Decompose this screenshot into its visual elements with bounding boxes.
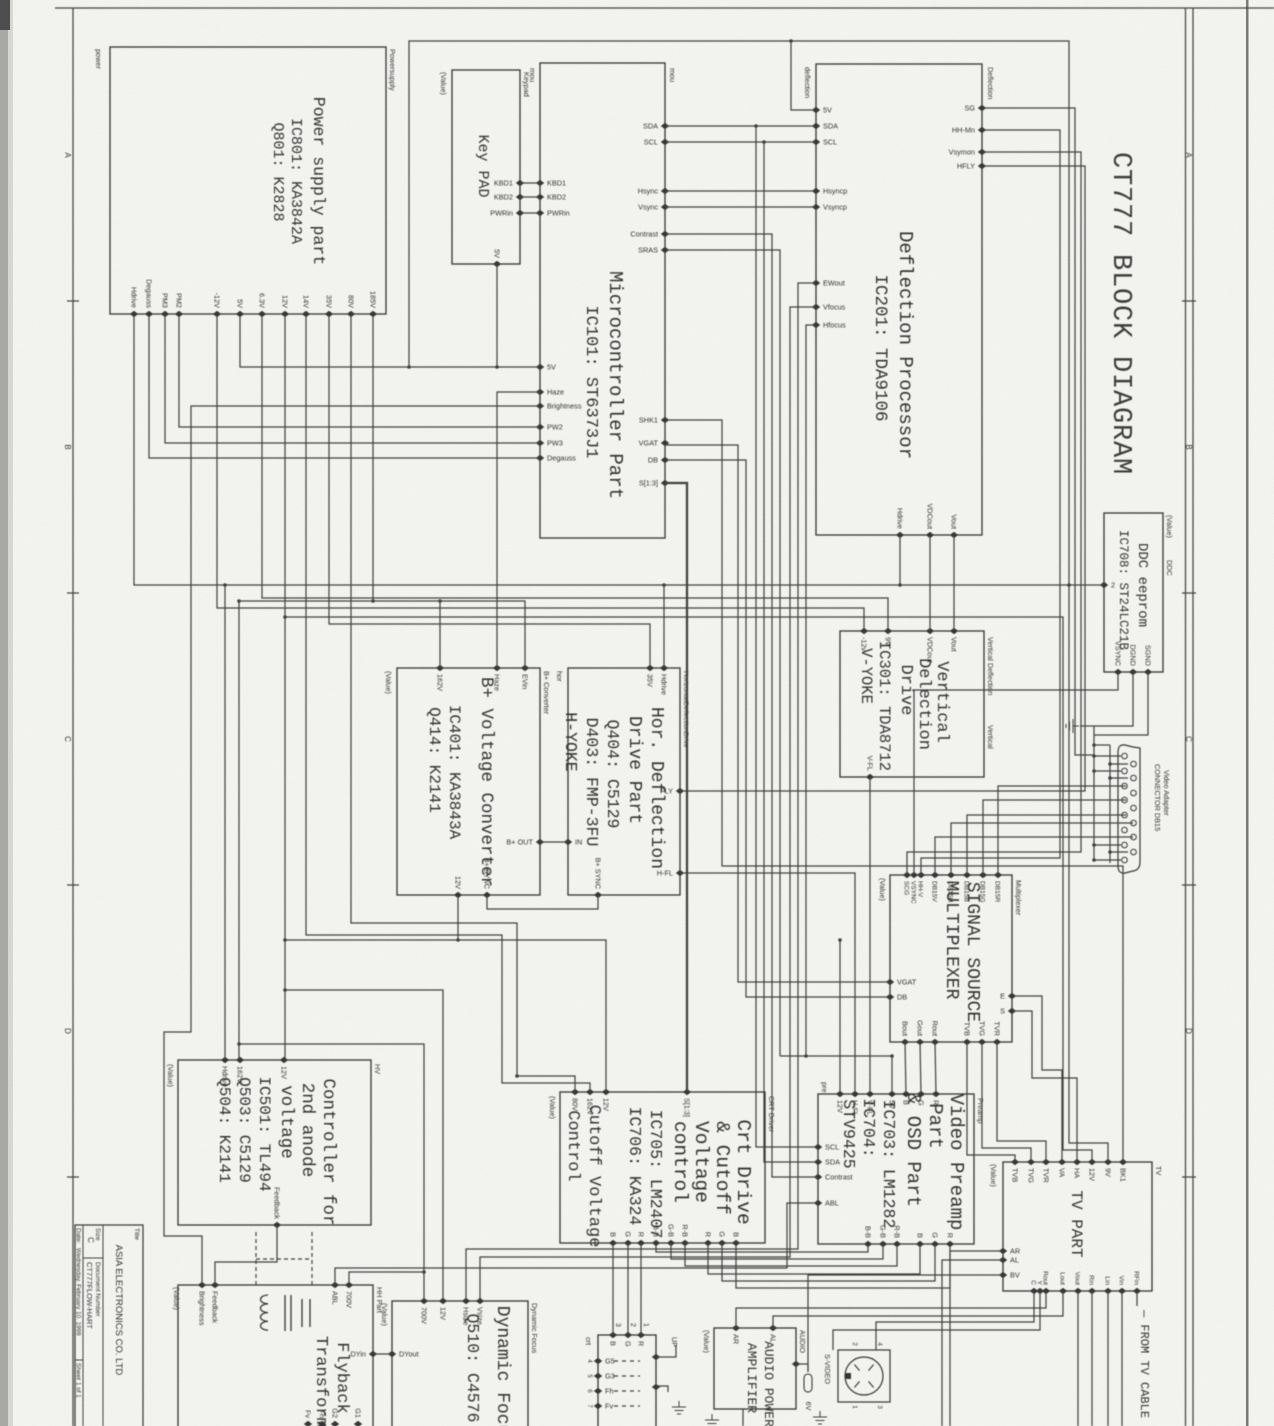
wire SHK1 net to TV BK1 [665,420,1123,1162]
pin Vsyncp of IC201 [812,204,820,210]
block DDC eeprom IC708 [1104,513,1163,672]
pin 12V of CRT drive [602,1089,610,1095]
pin BV of TV part [999,1272,1007,1278]
wire DB15 pin stub [1094,770,1121,772]
wire DB15 pin stub [1094,844,1121,846]
pin R of CRT drive [704,1240,712,1246]
wire R to CRT socket [640,1243,642,1335]
wire Degauss net [149,314,540,458]
pin VDCout of IC301 [926,628,934,634]
pin VSYNC of multiplexer [910,872,918,878]
pin 35V of power supply [325,311,333,317]
wire 5V to preamp [780,1056,892,1094]
pin B+ SYNC of IC401 [483,892,491,898]
wire G to CRT socket [627,1243,629,1335]
wire 12V to dynamic focus [285,990,443,1301]
wire [796,1364,808,1372]
pin E of multiplexer [1008,993,1016,999]
connector S-VIDEO shell square [838,1350,890,1402]
block Video Preamp Part & OSD Part IC703/IC704 [818,1094,974,1244]
block Power supply part IC801 [110,47,386,314]
pin B+ SYNC of Hor Deflection [594,892,602,898]
wire ground stem [1080,725,1094,727]
pin AL of TV part [999,1257,1007,1263]
wire video RGB link [656,1243,868,1252]
pin AL of audio amplifier [769,1325,777,1331]
fuse/capacitor component near audio amp [804,1374,812,1392]
title block divider size/doc [83,1257,103,1259]
pin Fv of flyback [304,1421,312,1426]
pin R-B of preamp [893,1241,901,1247]
pin Feedback of IC501 [273,1222,281,1228]
pin SHK1 of IC101 [661,417,669,423]
pin B of preamp [902,1091,910,1097]
pin TVR of multiplexer [993,1039,1001,1045]
wire 80V feed to CRT drive pin1 [351,314,575,1092]
bus S[1:3] [665,483,687,1092]
pin DB15R of multiplexer [994,872,1002,878]
wire TVB net [967,1042,1015,1162]
block Key PAD [452,70,520,264]
pin B-B of CRT drive [652,1240,660,1246]
wire DGND to ground [1094,672,1133,726]
wire DB15 pin stub [1094,859,1121,861]
pin G0 of CRT socket [652,1384,660,1390]
wire video RGB link [685,1243,897,1266]
wire EWout to dynamic focus Hsize [466,283,816,1301]
pin 9V of IC301 [884,628,892,634]
pin Hdrive of power supply [130,311,138,317]
pin Vout of IC301 [950,628,958,634]
block Dynamic Focus Q510 [392,1301,528,1426]
block TV PART [1003,1162,1152,1291]
pin PM3 of power supply [161,311,169,317]
dashed HV wire 2 [311,1232,313,1285]
block SIGNAL SOURCE MULTIPLEXER [890,875,1012,1042]
junction [1092,769,1096,773]
junction [1092,858,1096,862]
pin H-FL of preamp [851,1091,859,1097]
junction [662,583,666,587]
pin 12V of TV part [1088,1159,1096,1165]
pin Contrast of preamp [814,1174,822,1180]
pin DYin of flyback [369,1351,377,1357]
wire 6.3V net [262,314,888,631]
wire video RGB link [722,1243,935,1281]
pin Rout of TV part [1042,1288,1050,1294]
pin G4 of CRT socket [652,1354,660,1360]
pin G of preamp [931,1241,939,1247]
wire Hdrive to IC201 [899,535,901,585]
pin B-B of preamp [864,1241,872,1247]
wire RFin from TV cable [1136,1291,1138,1306]
pin 35V of Hor Deflection [646,665,654,671]
pin VGAT of multiplexer [886,979,894,985]
pin Bout of multiplexer [901,1039,909,1045]
wire Hsync net [665,190,816,192]
wire Rout to audio AR [736,1291,1046,1328]
wire Contrast net [665,234,818,1177]
wire Vsync net [665,206,816,208]
junction [223,583,227,587]
title block row line 2 [82,1225,84,1426]
zone ticks top border [1182,300,1196,302]
wire B to CRT socket [612,1243,614,1335]
ground near S-VIDEO [813,1411,827,1424]
pin 5V of Key PAD [493,261,501,267]
pin SGND of IC708 [1144,669,1152,675]
wire 12V to TV part [285,617,1092,1162]
pin Contrast of IC101 [661,231,669,237]
pin KBD1 of IC101 [536,180,544,186]
pin ABL of preamp [814,1200,822,1206]
wire V-FL net to preamp [869,777,871,1094]
pin Gout of multiplexer [916,1039,924,1045]
pin AR of audio amplifier [732,1325,740,1331]
wire VSYNC from DDC to multiplexer [914,672,1118,875]
wire ABL net [335,1203,818,1285]
junction [1108,776,1112,780]
wire Bout to preamp B [905,1042,906,1094]
pin Hsize of dynamic focus [462,1298,470,1304]
block B+ Voltage Converter IC401 [397,668,540,895]
wire 185V net [373,314,440,668]
wire H-FL net to preamp [680,873,855,1094]
pin IN of Hor Deflection [564,839,572,845]
junction [1092,843,1096,847]
pin Hdrive of Hor Deflection [660,665,668,671]
wire HFLY to Hor Deflection [680,166,1085,791]
pin BK1 of TV part [1119,1159,1127,1165]
wire TVG net [982,1042,1031,1162]
pin Fh of CRT socket [594,1388,602,1394]
wire KBD2 net [520,196,540,198]
wire HH-Mn to multiplexer [921,130,1060,875]
pin 6.3V of power supply [258,311,266,317]
pin G3 of CRT socket [594,1373,602,1379]
pin Degauss of IC101 [536,455,544,461]
pin B of CRT socket [609,1332,617,1338]
connector S-VIDEO DIN circle [845,1357,883,1395]
pin KBD1 of Key PAD [516,180,524,186]
pin S of multiplexer [1008,1008,1016,1014]
pin Vout of IC201 [950,532,958,538]
wire [967,815,1126,875]
wire Hdrive / DDC rail [134,314,1104,585]
pin Fh of flyback [318,1421,326,1426]
wire Vin down [1121,1291,1123,1426]
pin G of CRT socket [624,1332,632,1338]
pin EVin of IC401 [521,665,529,671]
wire 5V from power supply to IC101 [240,314,540,367]
wire [983,800,1126,875]
pin R of CRT socket [637,1332,645,1338]
pin PWRin of Key PAD [516,210,524,216]
ground at CRT socket [672,1401,686,1414]
wire EVin net [440,601,525,668]
pin Y of TV part [1036,1288,1044,1294]
pin 80V of power supply [347,311,355,317]
pin FLY of Hor Deflection [676,788,684,794]
block Microcontroller Part IC101 [540,63,665,538]
title block divider date/sheet [75,1359,83,1361]
wire 35V net [329,314,650,668]
pin DB15G of multiplexer [979,872,987,878]
pin 12V of IC401 [454,892,462,898]
wire 12V vertical rail [284,314,286,1060]
pin 5V of IC201 [812,107,820,113]
block Flyback Transformer [178,1285,373,1426]
junction [804,1054,808,1058]
pin V-FL of preamp [866,1091,874,1097]
pin HH-Mn of IC201 [978,127,986,133]
pin ABL of flyback [331,1282,339,1288]
wire video RGB link [708,1243,920,1274]
pin Fv of CRT socket [594,1403,602,1409]
S-VIDEO key notch [845,1373,851,1379]
pin Brightness of IC101 [536,403,544,409]
wire [998,786,1126,875]
block AUDIO POWER AMPLIFIER [714,1328,796,1409]
junction [1108,762,1112,766]
pin HH-V of multiplexer [917,872,925,878]
pin 700V of dynamic focus [420,1298,428,1304]
pin 162V of IC501 [236,1057,244,1063]
junction [407,365,411,369]
wire 14V feed to CRT drive pin2 [306,314,590,1092]
wire Vsymon / SCG net [907,152,1081,875]
wire Hdrive branch to Hor Deflection [663,585,665,668]
pin 12V of dynamic focus [439,1298,447,1304]
pin -12v of IC301 [860,628,868,634]
pin Vsync of IC101 [661,204,669,210]
wire DB15 pin stub B [1110,763,1128,765]
pin SDA of IC201 [812,123,820,129]
pin DB15H of multiplexer [947,872,955,878]
junction [422,1270,426,1274]
pin 5V of power supply [236,311,244,317]
pin DGND of IC708 [1129,669,1137,675]
junction [1108,850,1112,854]
pin DYout of dynamic focus [388,1351,396,1357]
S-VIDEO pin stubs [854,1365,873,1388]
dashed electrode lines inside CRT socket [614,1360,640,1362]
junction [890,1054,894,1058]
pin DB of IC101 [661,457,669,463]
wire Hfocus net [806,325,816,1056]
wire [1109,745,1111,863]
pin S[1:3] of IC101 [661,480,669,486]
junction [762,140,766,144]
wire Hdrive branch to IC501 [224,585,226,1060]
wire Vout down [1077,1291,1079,1426]
wire SG to DB15 ground [982,108,1094,755]
wire Haze net [497,392,540,668]
pin B of CRT drive [609,1240,617,1246]
block CRT socket [598,1335,656,1426]
pin 5V of preamp [888,1091,896,1097]
wire DB net [665,460,890,997]
block Deflection Processor IC201 [816,64,982,535]
pin Vfocus of IC201 [812,304,820,310]
pin 12V of IC501 [280,1057,288,1063]
pin Lin of TV part [1104,1288,1112,1294]
junction [838,938,842,942]
pin 5V of IC101 [536,364,544,370]
pin Vsize of dynamic focus [476,1298,484,1304]
wire -12V net [217,314,864,631]
pin VDCout of IC201 [926,532,934,538]
wire SDA branch to preamp [756,126,818,1147]
junction [789,39,793,43]
junction [438,599,442,603]
pin G of CRT drive [718,1240,726,1246]
wire DB15 pin stub [1094,755,1121,757]
pin Haze of IC101 [536,389,544,395]
DB15 pin circles row 2 [1131,761,1137,767]
wire SRAS net [665,250,780,1056]
ground at audio amplifier [705,1414,719,1426]
pin Rin of TV part [1088,1288,1096,1294]
wire SCL branch to preamp [764,142,818,1162]
junction [456,938,460,942]
wire AL net [942,1260,1003,1426]
junction [371,599,375,603]
pin 185V of power supply [369,311,377,317]
junction [754,124,758,128]
pin DB of multiplexer [886,994,894,1000]
wire Brightness net [164,406,540,1285]
wire Gout to preamp G [920,1042,921,1094]
pin G of CRT drive [624,1240,632,1246]
pin Vsymon of IC201 [978,149,986,155]
wire DB15 pin stub B [1110,851,1128,853]
pin VSYNC of IC708 [1114,669,1122,675]
pin KBD2 of Key PAD [516,194,524,200]
junction [283,988,287,992]
wire 700V net to dynamic focus [239,1044,424,1301]
pin Brightness of flyback [198,1282,206,1288]
wire 162V rail to IC501 [238,601,240,1060]
pin 700V of flyback [345,1282,353,1288]
junction [1067,583,1071,587]
pin 12V of preamp [836,1091,844,1097]
pin B of preamp [916,1241,924,1247]
wire DYin to DYout [373,1353,392,1355]
pin Haze of IC401 [493,665,501,671]
junction [237,599,241,603]
wire Rin down [1091,1291,1093,1426]
wire S to TV HA [1012,1011,1077,1162]
pin 162V of IC401 [436,665,444,671]
junction [495,365,499,369]
pin 14V of power supply [302,311,310,317]
wire Lin down [1107,1291,1109,1426]
pin SDA of preamp [814,1159,822,1165]
dashed HV wire 3 [256,1258,312,1260]
wire audio amp to ground rail [742,1409,744,1426]
wire Vout net [953,535,955,631]
title block row line 1 [102,1225,104,1426]
pin H-FL of Hor Deflection [676,870,684,876]
pin C of TV part [1030,1288,1038,1294]
pin Hdrive of IC201 [896,532,904,538]
wire [1093,726,1095,860]
wire BV to audio amp [808,1275,1003,1372]
pin VA of TV part [1058,1159,1066,1165]
wire SCL net [665,141,816,143]
pin PW2 of IC101 [536,424,544,430]
wire [656,1345,676,1357]
wire [656,1386,668,1392]
wire Y to S-VIDEO [833,1291,1040,1350]
pin Hsync of IC101 [661,188,669,194]
pin TVG of multiplexer [978,1039,986,1045]
pin S[1:3] of CRT drive [683,1089,691,1095]
pin SCL of IC101 [661,139,669,145]
junction [1092,754,1096,758]
wire Rout to preamp R [935,1042,936,1094]
wire 12V branch to preamp [839,940,841,1094]
pin 2 of IC708 [1100,582,1108,588]
pin Rout of multiplexer [931,1039,939,1045]
dashed HV wire 1 [255,1232,257,1285]
pin V-FL of IC301 [866,774,874,780]
pin 80V of CRT drive [571,1089,579,1095]
pin HFLY of IC201 [978,163,986,169]
pin SDA of IC101 [661,123,669,129]
pin TVB of TV part [1011,1159,1019,1165]
pin VGAT of IC101 [661,440,669,446]
pin SCL of preamp [814,1144,822,1150]
wire AR net [950,1251,1003,1426]
pin PWRin of IC101 [536,210,544,216]
wire 5V from Key PAD [496,264,498,367]
block Vertical Deflection Drive IC301 [840,631,984,777]
pin G1 of flyback [354,1421,362,1426]
wire DB15 pin stub B [1110,777,1128,779]
wire PM2 net [179,314,540,427]
wire 162V link [239,600,373,602]
block Hor. Deflection Drive Part [568,668,680,895]
pin B of CRT drive [732,1240,740,1246]
junction [283,938,287,942]
pin G2 of flyback [331,1421,339,1426]
pin Lout of TV part [1059,1288,1067,1294]
pin R of preamp [946,1241,954,1247]
pin -12V of power supply [213,311,221,317]
wire B+ OUT to IN [540,841,568,843]
pin DB15V of multiplexer [931,872,939,878]
pin SG of IC201 [978,105,986,111]
title block frame [75,1225,143,1426]
wire video RGB link [736,1243,950,1288]
wire PWRin net [520,212,540,214]
wire TVR net [997,1042,1046,1162]
pin Hsyncp of IC201 [812,188,820,194]
wire 5V to IC201 [791,41,816,110]
pin Vout of TV part [1074,1288,1082,1294]
pin R of CRT drive [637,1240,645,1246]
DB15 pin circles row 1 [1122,753,1128,759]
pin Vin of TV part [1118,1288,1126,1294]
pin Feedback of flyback [211,1282,219,1288]
block Controller for 2nd anode voltage IC501 [178,1060,371,1225]
pin G of preamp [917,1091,925,1097]
connector DB15 shell [1118,745,1140,873]
pin G5 of CRT socket [594,1358,602,1364]
wire [951,823,1133,875]
